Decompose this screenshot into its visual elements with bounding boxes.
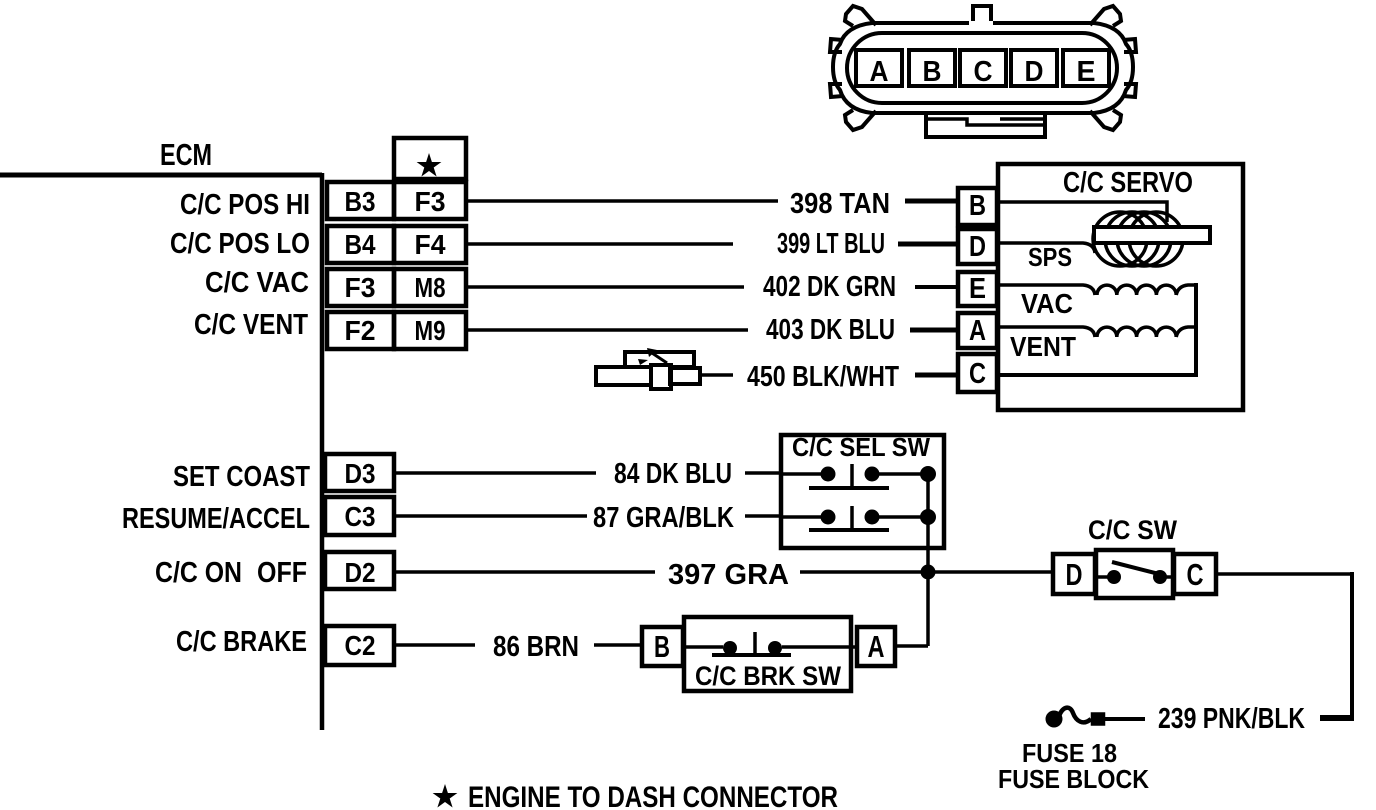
svg-text:F2: F2 [345, 315, 376, 346]
svg-text:OFF: OFF [257, 557, 307, 589]
svg-text:F3: F3 [345, 272, 376, 303]
svg-text:C/C BRK SW: C/C BRK SW [695, 661, 841, 691]
svg-text:E: E [969, 273, 986, 305]
svg-text:C2: C2 [345, 630, 376, 661]
svg-text:ENGINE TO DASH CONNECTOR: ENGINE TO DASH CONNECTOR [468, 781, 838, 810]
svg-text:F3: F3 [415, 186, 446, 217]
svg-text:A: A [870, 56, 889, 88]
svg-text:C/C POS HI: C/C POS HI [180, 189, 310, 221]
svg-text:SPS: SPS [1028, 242, 1072, 272]
svg-text:D2: D2 [345, 557, 376, 588]
svg-text:RESUME/ACCEL: RESUME/ACCEL [122, 503, 310, 535]
svg-text:239 PNK/BLK: 239 PNK/BLK [1158, 703, 1305, 735]
svg-text:C/C VENT: C/C VENT [194, 309, 308, 341]
svg-text:C/C SEL SW: C/C SEL SW [792, 432, 930, 462]
svg-text:D: D [1025, 56, 1044, 88]
svg-text:D3: D3 [345, 458, 376, 489]
svg-text:87 GRA/BLK: 87 GRA/BLK [593, 502, 734, 534]
svg-text:C3: C3 [345, 501, 376, 532]
svg-text:B4: B4 [345, 229, 376, 260]
svg-text:B: B [654, 629, 670, 664]
svg-text:399 LT BLU: 399 LT BLU [777, 228, 885, 260]
svg-text:C: C [1187, 557, 1204, 592]
svg-text:C: C [969, 358, 986, 390]
svg-text:84 DK BLU: 84 DK BLU [614, 458, 732, 490]
svg-text:86 BRN: 86 BRN [493, 631, 579, 663]
svg-text:B: B [923, 56, 942, 88]
svg-text:A: A [868, 629, 885, 664]
svg-text:A: A [969, 315, 986, 347]
svg-text:ECM: ECM [160, 137, 212, 172]
svg-text:C: C [974, 56, 993, 88]
svg-text:M8: M8 [415, 272, 446, 303]
svg-text:C/C SERVO: C/C SERVO [1063, 167, 1193, 199]
svg-text:D: D [969, 231, 986, 263]
svg-text:C/C VAC: C/C VAC [205, 267, 309, 299]
svg-text:398 TAN: 398 TAN [790, 188, 890, 220]
svg-text:B: B [969, 190, 986, 222]
svg-text:450 BLK/WHT: 450 BLK/WHT [747, 361, 899, 393]
svg-text:397 GRA: 397 GRA [668, 559, 789, 591]
svg-text:B3: B3 [345, 186, 376, 217]
svg-text:FUSE BLOCK: FUSE BLOCK [998, 764, 1149, 794]
svg-text:C/C ON: C/C ON [155, 557, 242, 589]
svg-text:VENT: VENT [1010, 331, 1076, 362]
svg-text:C/C BRAKE: C/C BRAKE [176, 626, 307, 658]
svg-text:F4: F4 [415, 229, 446, 260]
svg-text:C/C SW: C/C SW [1088, 515, 1177, 545]
svg-text:D: D [1066, 557, 1083, 592]
svg-text:403 DK BLU: 403 DK BLU [766, 314, 895, 346]
svg-text:SET COAST: SET COAST [173, 461, 310, 493]
svg-text:402 DK GRN: 402 DK GRN [763, 271, 896, 303]
svg-text:E: E [1077, 56, 1096, 88]
svg-text:VAC: VAC [1021, 288, 1073, 319]
svg-text:M9: M9 [415, 315, 446, 346]
svg-text:C/C POS LO: C/C POS LO [170, 228, 310, 260]
